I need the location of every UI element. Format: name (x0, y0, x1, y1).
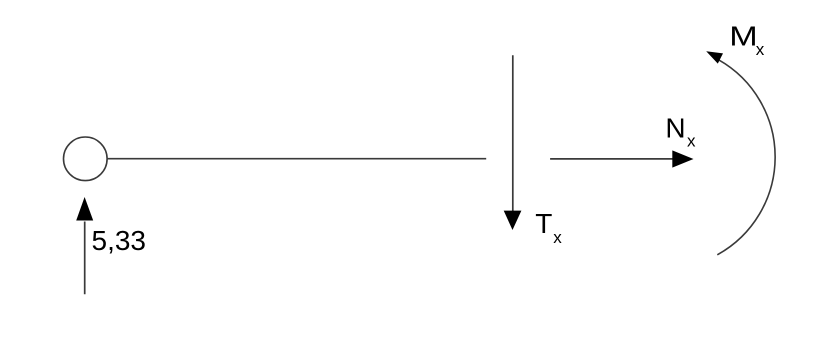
svg-text:x: x (687, 132, 696, 151)
moment arc Mx (717, 60, 775, 255)
svg-text:N: N (665, 113, 685, 144)
label Nx (665, 113, 696, 151)
svg-text:M: M (729, 20, 757, 51)
label Mx (729, 20, 765, 59)
svg-text:5,33: 5,33 (92, 225, 147, 256)
svg-text:T: T (535, 208, 552, 239)
reaction arrow 5,33 head (76, 197, 93, 221)
force arrow Tx shaft (512, 55, 514, 212)
pin circle (hinge support) (64, 137, 108, 181)
reaction arrow 5,33 shaft (84, 222, 86, 295)
force arrow Nx head (672, 150, 693, 167)
svg-text:x: x (553, 228, 562, 247)
label Tx (535, 208, 562, 247)
wire beam line (107, 158, 486, 160)
moment arrow Mx head (706, 51, 723, 63)
svg-text:x: x (756, 40, 765, 59)
force arrow Nx shaft (550, 158, 676, 160)
force arrow Tx head (504, 211, 522, 230)
